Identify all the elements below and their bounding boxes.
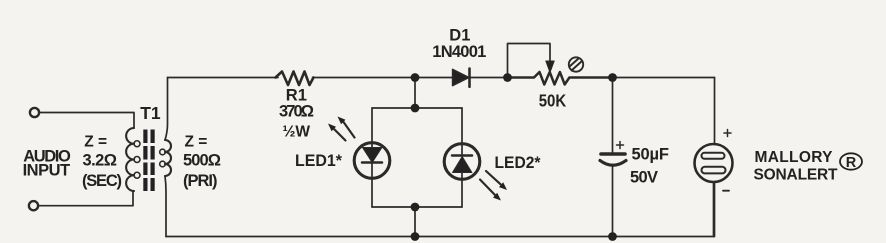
- svg-text:SONALERT: SONALERT: [754, 166, 839, 183]
- label D1 1N4001: [432, 27, 486, 62]
- svg-text:50K: 50K: [539, 91, 567, 111]
- svg-text:D1: D1: [449, 27, 470, 45]
- svg-text:MALLORY: MALLORY: [755, 149, 834, 166]
- LED2: [444, 144, 480, 180]
- wire LED bottom bar: [372, 206, 462, 208]
- svg-text:(PRI): (PRI): [183, 172, 218, 190]
- junction node pot left: [503, 73, 512, 82]
- LED1 light arrows: [334, 122, 355, 141]
- wire bottom rail: [166, 182, 715, 237]
- resistor R1: [276, 72, 314, 86]
- audio input top terminal: [30, 108, 39, 117]
- junction node bottom rail LED: [411, 232, 420, 241]
- screwdriver adjust symbol: [569, 57, 583, 71]
- svg-text:T1: T1: [140, 103, 161, 123]
- label Z = 500ohm (PRI): [183, 134, 221, 191]
- junction node LED top bar: [411, 104, 420, 113]
- junction node top LED branch: [411, 73, 420, 82]
- svg-text:½W: ½W: [283, 124, 311, 141]
- junction node LED bottom bar: [411, 203, 420, 212]
- svg-text:500Ω: 500Ω: [183, 152, 221, 170]
- transformer T1 primary winding: [160, 140, 171, 176]
- junction node cap top: [608, 73, 617, 82]
- potentiometer 50K element: [508, 72, 613, 85]
- wire left rail bottom (primary to bottom rail): [165, 176, 166, 237]
- svg-text:1N4001: 1N4001: [432, 43, 486, 61]
- wire LED1 top lead: [371, 108, 373, 147]
- wire top rail left segment: [168, 77, 279, 79]
- wire R1 to LED branch node: [313, 77, 416, 79]
- wire LED1 bottom lead: [371, 163, 373, 207]
- svg-text:Z =: Z =: [185, 134, 208, 151]
- wire LED2 bottom lead: [461, 173, 463, 208]
- potentiometer wiper arrow: [546, 61, 554, 73]
- wire sonalert bottom lead: [713, 182, 715, 237]
- potentiometer wiper wire: [508, 44, 551, 78]
- wire pot to top-right corner: [613, 77, 715, 79]
- svg-text:50µF: 50µF: [632, 146, 670, 164]
- LED2 light arrows: [480, 171, 501, 195]
- wire top terminal to transformer: [39, 113, 134, 129]
- svg-text:50V: 50V: [630, 169, 658, 187]
- svg-text:LED2*: LED2*: [495, 154, 542, 172]
- wire LED branch to bottom rail: [414, 207, 416, 237]
- sonalert minus sign: [723, 190, 729, 192]
- registered trademark symbol: [840, 153, 862, 171]
- wire LED branch drop: [414, 78, 416, 109]
- wire LED node to D1: [415, 77, 453, 79]
- transformer T1 secondary winding: [126, 128, 140, 191]
- svg-text:R: R: [846, 155, 857, 171]
- wire D1 to pot node: [470, 77, 508, 79]
- svg-text:Z =: Z =: [84, 134, 107, 151]
- svg-text:370Ω: 370Ω: [279, 103, 314, 121]
- sonalert plus sign: [724, 130, 731, 137]
- audio input bottom terminal: [29, 201, 38, 210]
- label Z = 3.2ohm (SEC): [82, 134, 122, 191]
- label AUDIO INPUT: [23, 148, 71, 180]
- wire capacitor bottom lead: [612, 165, 614, 237]
- label R1 370ohm 1/2W: [279, 87, 314, 141]
- label 50uF 50V: [630, 146, 669, 187]
- capacitor C1: [601, 152, 625, 156]
- wire LED top bar: [372, 107, 462, 109]
- capacitor C1 plus sign: [617, 142, 624, 149]
- wire sonalert top lead: [714, 78, 716, 145]
- diode D1: [453, 69, 470, 85]
- svg-text:(SEC): (SEC): [82, 172, 122, 190]
- sonalert body: [695, 144, 733, 182]
- wire bottom terminal to transformer: [38, 191, 133, 206]
- svg-text:LED1*: LED1*: [295, 152, 343, 170]
- wire left rail top (primary to top rail): [165, 78, 168, 141]
- label MALLORY SONALERT: [754, 149, 839, 183]
- wire LED2 top lead: [461, 108, 463, 155]
- transformer T1 core: [143, 130, 154, 192]
- svg-text:3.2Ω: 3.2Ω: [83, 152, 118, 170]
- LED1: [354, 143, 390, 179]
- svg-text:INPUT: INPUT: [23, 162, 71, 180]
- wire capacitor top lead: [612, 78, 614, 153]
- junction node bottom rail cap: [608, 232, 617, 241]
